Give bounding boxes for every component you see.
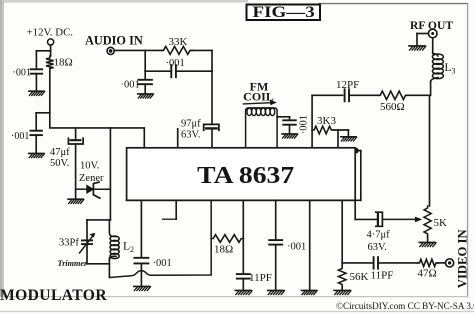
- label RF OUT: [410, 19, 453, 32]
- label VIDEO IN: [455, 229, 469, 288]
- label +12V. DC.: [27, 27, 73, 39]
- svg-text:63V.: 63V.: [368, 242, 387, 253]
- ground: [268, 290, 285, 294]
- wire: [430, 82, 431, 207]
- wire: [140, 200, 142, 257]
- ground: [409, 46, 426, 50]
- capacitor 11PF: [237, 274, 250, 279]
- label 18ohm: [54, 57, 73, 69]
- capacitor .001 (audio series): [171, 65, 176, 77]
- wire: [311, 95, 313, 147]
- wire: [242, 200, 244, 273]
- svg-text:VIDEO IN: VIDEO IN: [455, 229, 469, 288]
- ground: [334, 290, 351, 294]
- svg-text:56K: 56K: [350, 271, 369, 283]
- svg-text:18Ω: 18Ω: [214, 244, 233, 256]
- label FM: [250, 80, 269, 94]
- svg-text:50V.: 50V.: [50, 158, 69, 169]
- svg-text:10V.: 10V.: [80, 161, 99, 172]
- wire: [108, 258, 110, 277]
- capacitor 47uF 50V: [68, 138, 83, 144]
- svg-text:97μf: 97μf: [181, 119, 201, 130]
- svg-text:·001: ·001: [166, 58, 185, 69]
- wire: [87, 220, 110, 240]
- capacitor .001 (FM coil): [283, 120, 296, 124]
- svg-text:COIL: COIL: [243, 90, 274, 104]
- svg-text:12PF: 12PF: [336, 79, 359, 91]
- svg-text:5K: 5K: [434, 217, 448, 229]
- svg-text:Trimmer: Trimmer: [58, 259, 89, 268]
- wire: [408, 94, 430, 96]
- svg-text:·001: ·001: [11, 131, 29, 142]
- wire: [145, 50, 171, 71]
- svg-text:11PF: 11PF: [249, 272, 272, 284]
- label 560ohm: [380, 101, 405, 113]
- label 56K: [350, 271, 369, 283]
- label 5K: [434, 217, 448, 229]
- wire: [277, 117, 289, 119]
- ground: [282, 134, 298, 138]
- svg-text:4·7μf: 4·7μf: [367, 230, 391, 241]
- label 47uF: [50, 147, 70, 158]
- label L2: [123, 240, 134, 254]
- wire: [432, 38, 434, 54]
- wire: [75, 128, 77, 140]
- svg-text:·001: ·001: [153, 258, 172, 269]
- label 33K: [169, 36, 188, 48]
- svg-text:·001: ·001: [13, 68, 31, 79]
- label 18ohm: [214, 244, 233, 256]
- label 97uF: [181, 119, 201, 130]
- wire: [349, 94, 378, 96]
- resistor 18ohm (bottom): [211, 235, 243, 243]
- wire: [87, 244, 109, 264]
- svg-text:33Pf: 33Pf: [59, 238, 79, 249]
- label .001: [11, 131, 29, 142]
- label .001: [287, 242, 306, 253]
- capacitor 4.7uF 63V: [376, 212, 383, 226]
- node junction: [353, 148, 359, 154]
- svg-text:AUDIO IN: AUDIO IN: [85, 33, 143, 47]
- label .001: [121, 80, 140, 91]
- wire: [309, 200, 311, 289]
- label 12PF: [336, 79, 359, 91]
- label COIL: [243, 90, 274, 104]
- wire: [337, 130, 339, 148]
- capacitor 11PF (video): [374, 257, 378, 269]
- capacitor 97uF 63V: [204, 124, 219, 130]
- label 10V.: [80, 161, 99, 172]
- label MODULATOR: [0, 287, 107, 304]
- capacitor .001 (supply filter 2): [30, 131, 42, 135]
- svg-text:·001: ·001: [287, 242, 306, 253]
- wire: [109, 128, 111, 220]
- resistor 3K3: [312, 126, 333, 134]
- wire: [35, 135, 37, 153]
- svg-text:560Ω: 560Ω: [380, 101, 405, 113]
- svg-text:63V.: 63V.: [181, 130, 200, 141]
- resistor 47ohm: [418, 259, 439, 266]
- wire: [341, 287, 343, 290]
- label 63V.: [368, 242, 387, 253]
- wire: [333, 130, 348, 136]
- capacitor 12PF: [345, 89, 349, 101]
- label 11PF: [371, 270, 394, 282]
- wire pin stub: [163, 200, 177, 219]
- terminal AUDIO IN: [107, 47, 114, 54]
- ground: [301, 290, 317, 294]
- svg-text:MODULATOR: MODULATOR: [0, 287, 107, 304]
- wire: [75, 144, 77, 199]
- ground: [419, 242, 436, 246]
- wire hop: [110, 200, 211, 277]
- label 11PF: [249, 272, 272, 284]
- wire: [342, 262, 372, 264]
- svg-text:+12V. DC.: +12V. DC.: [27, 27, 73, 39]
- wire: [356, 151, 361, 201]
- capacitor .001 (osc): [134, 258, 148, 264]
- inductor L3: [431, 54, 444, 82]
- ground: [68, 199, 84, 203]
- wire: [242, 279, 244, 290]
- terminal VIDEO IN: [446, 259, 454, 267]
- wire: [176, 70, 212, 72]
- IC U1 TA8637: [127, 148, 361, 201]
- wire: [192, 50, 212, 124]
- terminal +12V DC: [48, 39, 54, 45]
- label 33Pf: [59, 238, 79, 249]
- capacitor .001 (bottom): [269, 240, 282, 245]
- wire: [50, 71, 145, 148]
- wire: [275, 200, 277, 239]
- wire: [438, 262, 445, 264]
- svg-text:33K: 33K: [169, 36, 188, 48]
- label 3K3: [317, 115, 336, 127]
- svg-text:47μf: 47μf: [50, 147, 70, 158]
- svg-text:FIG—3: FIG—3: [253, 4, 316, 21]
- wire pin stub: [177, 129, 179, 148]
- svg-text:L3: L3: [445, 62, 456, 76]
- wire: [417, 34, 428, 46]
- label copyright: [336, 301, 474, 311]
- ground: [29, 91, 45, 95]
- svg-text:11PF: 11PF: [371, 270, 394, 282]
- label .001 rotated: [298, 115, 309, 134]
- ground: [235, 290, 252, 294]
- label .001: [13, 68, 31, 79]
- ground: [341, 137, 357, 141]
- trimmer capacitor 33pF: [80, 233, 96, 253]
- wire: [312, 94, 343, 96]
- wire: [427, 236, 429, 241]
- capacitor .001 (audio shunt): [138, 80, 152, 84]
- wiper arrow: [383, 217, 422, 223]
- wire: [144, 71, 146, 79]
- inductor FM coil: [246, 108, 278, 148]
- zener diode 10V: [76, 182, 111, 198]
- svg-text:TA 8637: TA 8637: [197, 163, 294, 189]
- svg-text:·001: ·001: [121, 80, 140, 91]
- label 63V.: [181, 130, 200, 141]
- ground: [134, 286, 151, 290]
- wire: [211, 128, 213, 147]
- label 4.7uF: [367, 230, 391, 241]
- capacitor .001 (supply filter 1): [31, 69, 43, 73]
- wire: [289, 125, 291, 134]
- terminal RF OUT: [428, 29, 437, 38]
- label L3: [445, 62, 456, 76]
- label 47ohm: [418, 268, 437, 280]
- wire: [341, 200, 343, 266]
- arrow (tuning): [243, 100, 277, 105]
- label .001: [166, 58, 185, 69]
- ground: [29, 153, 45, 157]
- label .001: [153, 258, 172, 269]
- resistor 18ohm (supply): [46, 56, 54, 71]
- wire: [378, 262, 418, 264]
- wire: [35, 74, 37, 91]
- wire: [36, 45, 50, 69]
- svg-text:Zener: Zener: [79, 173, 104, 184]
- svg-text:·001: ·001: [298, 115, 309, 134]
- inductor L2: [109, 220, 119, 260]
- resistor 560ohm: [378, 91, 407, 99]
- potentiometer 5K: [424, 206, 431, 236]
- svg-text:18Ω: 18Ω: [54, 57, 73, 69]
- label AUDIO IN: [85, 33, 143, 47]
- svg-text:©CircuitsDIY.com CC BY-NC-SA 3: ©CircuitsDIY.com CC BY-NC-SA 3.0: [336, 301, 474, 311]
- wire: [140, 263, 142, 285]
- wire: [275, 245, 277, 290]
- ground: [138, 94, 154, 98]
- svg-text:L2: L2: [123, 240, 134, 254]
- svg-text:3K3: 3K3: [317, 115, 336, 127]
- wire: [114, 49, 161, 51]
- wire: [36, 113, 50, 130]
- label Zener: [79, 173, 104, 184]
- wire: [355, 200, 377, 219]
- wire: [144, 84, 146, 93]
- svg-text:47Ω: 47Ω: [418, 268, 437, 280]
- label Trimmer: [58, 259, 89, 268]
- resistor 56K: [338, 267, 346, 287]
- resistor 33K: [162, 46, 193, 54]
- title box FIG-3: [247, 4, 321, 21]
- label 50V.: [50, 158, 69, 169]
